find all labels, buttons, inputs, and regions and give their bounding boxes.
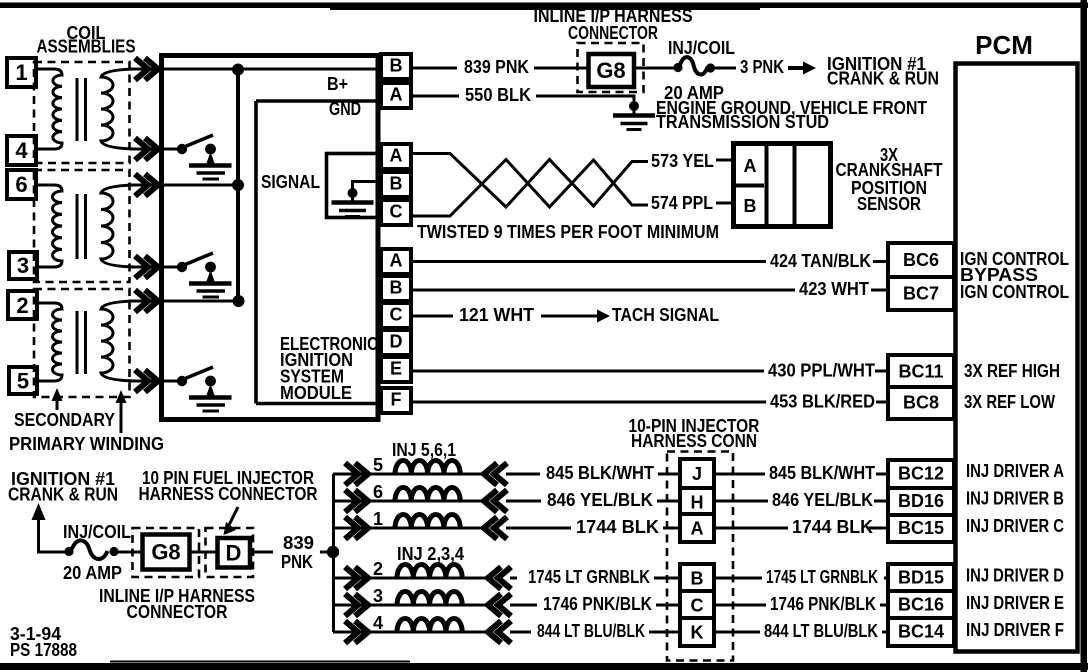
pin BC14	[888, 618, 954, 646]
svg-text:B: B	[744, 196, 757, 216]
pin BC6	[888, 243, 954, 277]
svg-text:844 LT BLU/BLK: 844 LT BLU/BLK	[537, 621, 645, 641]
injector row 5: wire	[333, 473, 486, 476]
svg-text:PRIMARY WINDING: PRIMARY WINDING	[9, 434, 164, 454]
wire coil 1/4 primary bottom to module	[129, 148, 161, 151]
wire inj2 to label	[510, 577, 517, 580]
svg-text:SECONDARY: SECONDARY	[14, 410, 115, 430]
wire 573 YEL to sensor pin A	[716, 159, 734, 162]
wire row3 to rail	[160, 184, 238, 187]
connector chevron row 3	[135, 174, 158, 196]
engine ground	[613, 101, 655, 130]
injector feed bus	[332, 474, 335, 632]
wire row5 to rail	[160, 300, 238, 303]
svg-text:INJ/COIL: INJ/COIL	[63, 522, 131, 542]
junction B+ top	[232, 64, 244, 76]
page frame right bar	[1081, 0, 1088, 672]
wire 550 BLK to ground	[536, 96, 634, 101]
svg-text:6: 6	[15, 172, 27, 197]
pin BC7	[888, 277, 954, 310]
pin BD16	[888, 488, 954, 515]
spark plug terminal 3	[9, 252, 37, 279]
svg-text:BC14: BC14	[898, 622, 944, 642]
wire pin K to 844 label	[714, 631, 760, 634]
connector G8 (bottom)	[143, 535, 190, 570]
svg-text:5: 5	[373, 455, 383, 475]
wire 574 PPL twisted	[411, 160, 648, 217]
wire feed to fuse	[37, 551, 66, 554]
pin BC16	[888, 591, 954, 619]
wire stub to BC8	[876, 401, 888, 404]
connector G8 dashed case (bottom)	[133, 528, 200, 577]
core coil 6/3	[76, 194, 79, 259]
svg-text:3 PNK: 3 PNK	[740, 57, 784, 77]
svg-text:2: 2	[16, 293, 28, 318]
module inner compartment	[256, 101, 377, 404]
module pin B (B+)	[381, 54, 411, 79]
10-pin connector dashed case	[667, 452, 733, 661]
connector chevron row 4	[135, 256, 158, 278]
svg-text:A: A	[390, 146, 403, 166]
wire 574 PPL to sensor pin B	[716, 202, 734, 205]
injector row 6: wire	[333, 500, 486, 503]
wire G8 to D	[189, 551, 218, 554]
connector chevron inj6 left	[345, 490, 368, 512]
injector coil 5	[395, 461, 460, 475]
wire stub to BC11	[875, 370, 888, 373]
connector chevron inj6 right	[484, 490, 507, 512]
wire row1 to pin B	[160, 68, 413, 71]
svg-text:453 BLK/RED: 453 BLK/RED	[770, 392, 875, 412]
svg-text:INJ DRIVER C: INJ DRIVER C	[966, 516, 1064, 536]
svg-text:BC6: BC6	[903, 250, 939, 270]
core coil 2/5	[76, 311, 79, 374]
junction B+ mid	[232, 179, 244, 191]
spark plug terminal 2	[8, 291, 37, 319]
svg-text:1744 BLK: 1744 BLK	[792, 517, 873, 537]
svg-text:D: D	[226, 541, 242, 566]
arrow to ignition feed	[788, 62, 816, 75]
signal compartment box	[327, 154, 380, 218]
svg-text:INJ DRIVER D: INJ DRIVER D	[966, 566, 1064, 586]
wire D to 839 PNK	[250, 551, 273, 554]
pin BC11	[888, 355, 954, 388]
svg-text:PS 17888: PS 17888	[10, 640, 77, 660]
wire pin A to 1744 label	[714, 527, 788, 530]
wire to BD16	[874, 500, 888, 503]
wire 1745 to pin B	[654, 577, 682, 580]
spark plug terminal 6	[7, 170, 36, 199]
svg-text:CONNECTOR: CONNECTOR	[568, 23, 658, 43]
svg-text:C: C	[691, 596, 704, 616]
module pin D (EST)	[381, 330, 411, 355]
svg-text:1: 1	[15, 60, 27, 85]
svg-text:G8: G8	[151, 540, 180, 565]
svg-text:423 WHT: 423 WHT	[799, 279, 869, 299]
connector chevron row 5	[135, 290, 158, 312]
wire 1746 to pin C	[656, 604, 682, 607]
secondary winding coil 1/4	[36, 69, 62, 149]
svg-text:K: K	[691, 623, 704, 643]
svg-text:3X REF LOW: 3X REF LOW	[964, 392, 1055, 412]
secondary winding coil 2/5	[37, 303, 62, 381]
injector row 4: wire	[333, 631, 490, 634]
svg-text:BD16: BD16	[898, 491, 944, 511]
connector D	[218, 538, 251, 568]
label PRIMARY WINDING with arrow	[9, 390, 164, 454]
switch Q2 with ground	[177, 253, 232, 297]
wire G8 to fuse	[634, 67, 676, 70]
connector pin K	[680, 618, 714, 646]
svg-text:ASSEMBLIES: ASSEMBLIES	[37, 37, 136, 57]
connector chevron row 6	[135, 370, 158, 392]
module pin F (EST)	[381, 388, 411, 413]
dashed case coil assembly 1/4	[34, 62, 130, 163]
svg-text:574 PPL: 574 PPL	[651, 193, 713, 213]
svg-text:INJ 2,3,4: INJ 2,3,4	[397, 544, 464, 564]
module pin B (EST)	[381, 276, 411, 301]
wire 121 WHT	[411, 315, 453, 318]
svg-text:4: 4	[373, 613, 383, 633]
connector chevron row 1	[135, 58, 158, 80]
svg-text:BC16: BC16	[898, 595, 944, 615]
svg-text:1746 PNK/BLK: 1746 PNK/BLK	[770, 594, 876, 614]
svg-text:B: B	[390, 174, 403, 194]
wire coil 2/5 primary top to module	[129, 300, 161, 303]
svg-text:CRANK & RUN: CRANK & RUN	[827, 69, 939, 89]
svg-text:550 BLK: 550 BLK	[465, 85, 531, 105]
primary winding coil 2/5	[101, 301, 134, 381]
svg-text:121 WHT: 121 WHT	[459, 305, 534, 325]
svg-text:1744 BLK: 1744 BLK	[576, 517, 659, 537]
wire stub to BC7	[871, 289, 888, 292]
module pin E (EST)	[381, 357, 411, 382]
svg-text:IGN CONTROL: IGN CONTROL	[960, 282, 1069, 302]
connector chevron inj3 left	[345, 594, 368, 616]
connector pin C	[680, 591, 714, 619]
primary winding coil 1/4	[101, 69, 134, 149]
fuse INJ/COIL 20 AMP	[673, 57, 715, 74]
svg-text:F: F	[391, 390, 402, 410]
wire to BC15	[868, 527, 888, 530]
wire 573 YEL twisted	[411, 154, 648, 208]
wire to BC12	[876, 473, 888, 476]
svg-text:H: H	[691, 493, 704, 513]
svg-text:B: B	[390, 278, 403, 298]
page frame top bar	[0, 3, 1088, 9]
svg-text:573 YEL: 573 YEL	[651, 151, 714, 171]
wire 839 PNK from pin B	[411, 67, 457, 70]
wire coil 6/3 primary bottom to module	[129, 266, 161, 269]
wire coil 1/4 primary top to module	[129, 68, 161, 71]
wire 1744 to pin A	[663, 527, 682, 530]
wire pin B to 1745 label	[714, 577, 762, 580]
svg-text:TACH SIGNAL: TACH SIGNAL	[612, 305, 719, 325]
svg-text:839: 839	[283, 533, 314, 553]
sensor connector 3X crankshaft position sensor	[734, 144, 831, 227]
svg-text:839 PNK: 839 PNK	[464, 57, 529, 77]
secondary winding coil 6/3	[36, 185, 62, 267]
connector chevron inj3 right	[488, 594, 511, 616]
wire fuse to G8	[117, 551, 143, 554]
svg-text:BC8: BC8	[903, 393, 939, 413]
svg-text:C: C	[390, 202, 403, 222]
label SECONDARY with arrow	[14, 388, 115, 430]
connector chevron inj5 left	[345, 463, 368, 485]
svg-text:E: E	[390, 359, 402, 379]
connector chevron row 2	[135, 138, 158, 160]
page frame bottom bar	[0, 663, 1088, 670]
module pin A (EST)	[381, 249, 411, 274]
svg-text:BC11: BC11	[898, 362, 943, 382]
wire 839 PNK to injector bus	[320, 551, 333, 554]
svg-text:846 YEL/BLK: 846 YEL/BLK	[772, 490, 873, 510]
injector row 2: wire	[333, 577, 490, 580]
wire 430 PPL/WHT	[411, 370, 764, 373]
spark plug terminal 1	[7, 58, 36, 87]
connector D dashed case	[206, 528, 254, 577]
wire coil 2/5 primary bottom to module	[129, 380, 161, 383]
svg-text:A: A	[390, 251, 403, 271]
connector pin H	[680, 488, 714, 516]
svg-text:C: C	[390, 305, 403, 325]
svg-text:1745 LT GRNBLK: 1745 LT GRNBLK	[528, 567, 650, 587]
module pin A (GND)	[381, 83, 411, 108]
svg-text:CONNECTOR: CONNECTOR	[127, 602, 228, 622]
wire to BD15	[884, 577, 888, 580]
injector coil 2	[397, 565, 462, 579]
svg-text:INJ DRIVER E: INJ DRIVER E	[966, 593, 1064, 613]
svg-text:3: 3	[17, 253, 29, 278]
wire inj3 to label	[510, 604, 537, 607]
junction B+ bottom	[233, 295, 245, 307]
svg-text:INJ DRIVER A: INJ DRIVER A	[966, 461, 1064, 481]
connector G8 dashed case	[578, 43, 644, 92]
svg-text:CRANKSHAFT: CRANKSHAFT	[836, 160, 943, 180]
svg-text:20 AMP: 20 AMP	[63, 563, 122, 583]
svg-text:D: D	[390, 332, 403, 352]
svg-text:INJ/COIL: INJ/COIL	[668, 38, 735, 58]
connector pin J	[680, 459, 714, 488]
wire pin J to 845 label	[714, 473, 765, 476]
svg-text:HARNESS CONN: HARNESS CONN	[631, 431, 757, 451]
svg-text:2: 2	[373, 559, 383, 579]
connector chevron inj5 right	[484, 463, 507, 485]
arrow tach signal	[541, 310, 610, 323]
svg-text:SIGNAL: SIGNAL	[261, 172, 320, 192]
switch Q1 with ground	[177, 135, 232, 179]
module pin B (signal)	[381, 172, 411, 197]
connector chevron inj2 right	[488, 567, 511, 589]
wire 839 PNK to G8	[534, 67, 590, 70]
svg-text:INJ DRIVER B: INJ DRIVER B	[966, 489, 1064, 509]
core coil 1/4	[76, 78, 79, 141]
wire 550 BLK from pin A	[411, 95, 459, 98]
wire pin H to 846 label	[714, 500, 768, 503]
pin BC15	[888, 515, 954, 542]
connector chevron inj4 right	[488, 621, 511, 643]
svg-text:1745 LT GRNBLK: 1745 LT GRNBLK	[766, 567, 878, 587]
wire stub to BC6	[873, 260, 888, 263]
wire inj1 to label	[506, 527, 571, 530]
module pin C (EST)	[381, 303, 411, 328]
module pin C (signal)	[381, 200, 411, 225]
wire inj5 to label	[506, 473, 540, 476]
fuse INJ/COIL 20 AMP (bottom)	[64, 540, 118, 559]
PCM box	[956, 30, 1078, 652]
arrow up ignition feed	[32, 503, 46, 552]
svg-text:844 LT BLU/BLK: 844 LT BLU/BLK	[764, 621, 878, 641]
pin BD15	[888, 564, 954, 592]
pin BC8	[888, 387, 954, 419]
wire row4 to switch 2	[160, 266, 182, 269]
svg-text:SENSOR: SENSOR	[857, 194, 921, 214]
wire coil 6/3 primary top to module	[129, 184, 161, 187]
svg-text:4: 4	[15, 138, 28, 163]
svg-text:B+: B+	[327, 74, 348, 94]
wire inj4 to label	[510, 631, 531, 634]
svg-text:3X REF HIGH: 3X REF HIGH	[964, 361, 1060, 381]
svg-text:CRANK & RUN: CRANK & RUN	[8, 485, 118, 505]
B+ bus rail	[236, 69, 240, 301]
injector coil 3	[397, 592, 462, 606]
wire to BC16	[880, 604, 888, 607]
connector pin A	[680, 514, 714, 542]
svg-text:J: J	[692, 464, 702, 484]
connector chevron inj2 left	[345, 567, 368, 589]
wire 424 TAN/BLK	[411, 260, 766, 263]
svg-text:1: 1	[373, 509, 383, 529]
dashed case coil assembly 2/5	[34, 289, 130, 397]
signal ground	[332, 188, 374, 217]
svg-text:TRANSMISSION STUD: TRANSMISSION STUD	[656, 112, 829, 132]
wire 845 to pin J	[658, 473, 682, 476]
injector row 1: wire	[333, 527, 486, 530]
svg-text:424 TAN/BLK: 424 TAN/BLK	[770, 251, 871, 271]
svg-text:INJ DRIVER F: INJ DRIVER F	[966, 620, 1064, 640]
spark plug terminal 5	[9, 367, 37, 394]
svg-text:3: 3	[373, 586, 383, 606]
wire to BC14	[882, 631, 888, 634]
svg-text:BD15: BD15	[898, 568, 944, 588]
svg-text:846 YEL/BLK: 846 YEL/BLK	[547, 490, 653, 510]
svg-text:BC12: BC12	[898, 464, 944, 484]
svg-text:845 BLK/WHT: 845 BLK/WHT	[546, 463, 654, 483]
junction injector bus	[327, 546, 339, 558]
primary winding coil 6/3	[101, 185, 134, 267]
connector chevron inj1 left	[345, 517, 368, 539]
dashed case coil assembly 6/3	[34, 170, 130, 282]
wire 846 to pin H	[657, 500, 682, 503]
svg-text:B: B	[691, 569, 704, 589]
connector chevron inj1 right	[484, 517, 507, 539]
module pin A (signal)	[381, 144, 411, 169]
wire pin C to 1746 label	[714, 604, 766, 607]
injector row 3: wire	[333, 604, 490, 607]
svg-text:INJ 5,6,1: INJ 5,6,1	[392, 440, 456, 460]
svg-text:PNK: PNK	[281, 552, 313, 572]
pin BC12	[888, 460, 954, 488]
connector pin B	[680, 564, 714, 592]
svg-text:845 BLK/WHT: 845 BLK/WHT	[769, 463, 875, 483]
injector coil 6	[395, 488, 460, 502]
wire pin B to signal ground	[353, 182, 379, 190]
wire 423 WHT	[411, 289, 795, 292]
switch Q3 with ground	[177, 367, 232, 411]
injector coil 4	[397, 619, 462, 633]
svg-text:G8: G8	[596, 58, 625, 83]
svg-text:5: 5	[17, 369, 29, 394]
svg-text:1746 PNK/BLK: 1746 PNK/BLK	[543, 594, 652, 614]
svg-text:A: A	[390, 85, 403, 105]
svg-text:BC7: BC7	[903, 284, 939, 304]
wire 844 to pin K	[649, 631, 682, 634]
svg-text:6: 6	[373, 482, 383, 502]
module EI outline	[162, 56, 379, 420]
wire row6 to switch 3	[160, 380, 182, 383]
svg-text:TWISTED 9 TIMES PER FOOT MINIM: TWISTED 9 TIMES PER FOOT MINIMUM	[417, 222, 719, 242]
injector coil 1	[395, 515, 460, 529]
connector G8	[589, 54, 635, 87]
wire row2 to switch 1	[160, 148, 182, 151]
spark plug terminal 4	[7, 136, 36, 165]
wire inj6 to label	[506, 500, 541, 503]
svg-text:PCM: PCM	[975, 30, 1033, 60]
arrow to connector D	[224, 507, 239, 535]
svg-text:A: A	[744, 156, 757, 176]
svg-text:A: A	[691, 519, 704, 539]
svg-text:MODULE: MODULE	[280, 383, 352, 403]
svg-text:430 PPL/WHT: 430 PPL/WHT	[768, 361, 875, 381]
svg-text:B: B	[390, 56, 403, 76]
wire 453 BLK/RED	[411, 401, 766, 404]
svg-text:GND: GND	[329, 99, 361, 119]
connector chevron inj4 left	[345, 621, 368, 643]
svg-text:HARNESS CONNECTOR: HARNESS CONNECTOR	[139, 484, 318, 504]
wire 3 PNK	[714, 67, 736, 70]
svg-text:BC15: BC15	[898, 518, 944, 538]
